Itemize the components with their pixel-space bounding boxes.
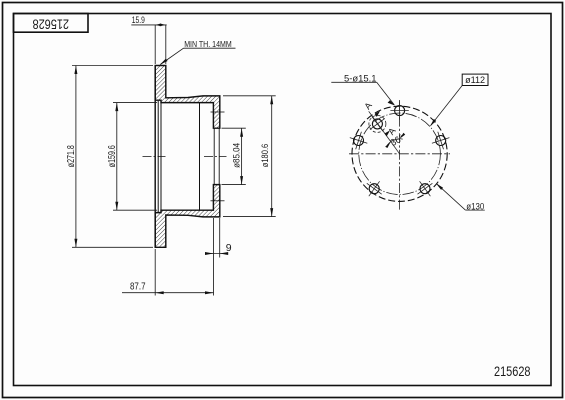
svg-text:ø85.04: ø85.04 — [231, 142, 242, 168]
svg-text:ø271.8: ø271.8 — [66, 145, 77, 167]
svg-text:87.7: 87.7 — [130, 281, 146, 293]
svg-text:215628: 215628 — [494, 363, 531, 379]
svg-text:ø159.6: ø159.6 — [107, 145, 118, 167]
svg-text:ø180.6: ø180.6 — [260, 144, 271, 168]
svg-text:9: 9 — [226, 242, 232, 254]
svg-text:5-ø15.1: 5-ø15.1 — [344, 73, 377, 83]
svg-text:MIN TH. 14MM: MIN TH. 14MM — [184, 39, 232, 49]
svg-text:ø112: ø112 — [465, 75, 485, 85]
svg-text:215628: 215628 — [32, 16, 69, 32]
svg-text:15.9: 15.9 — [132, 15, 145, 25]
